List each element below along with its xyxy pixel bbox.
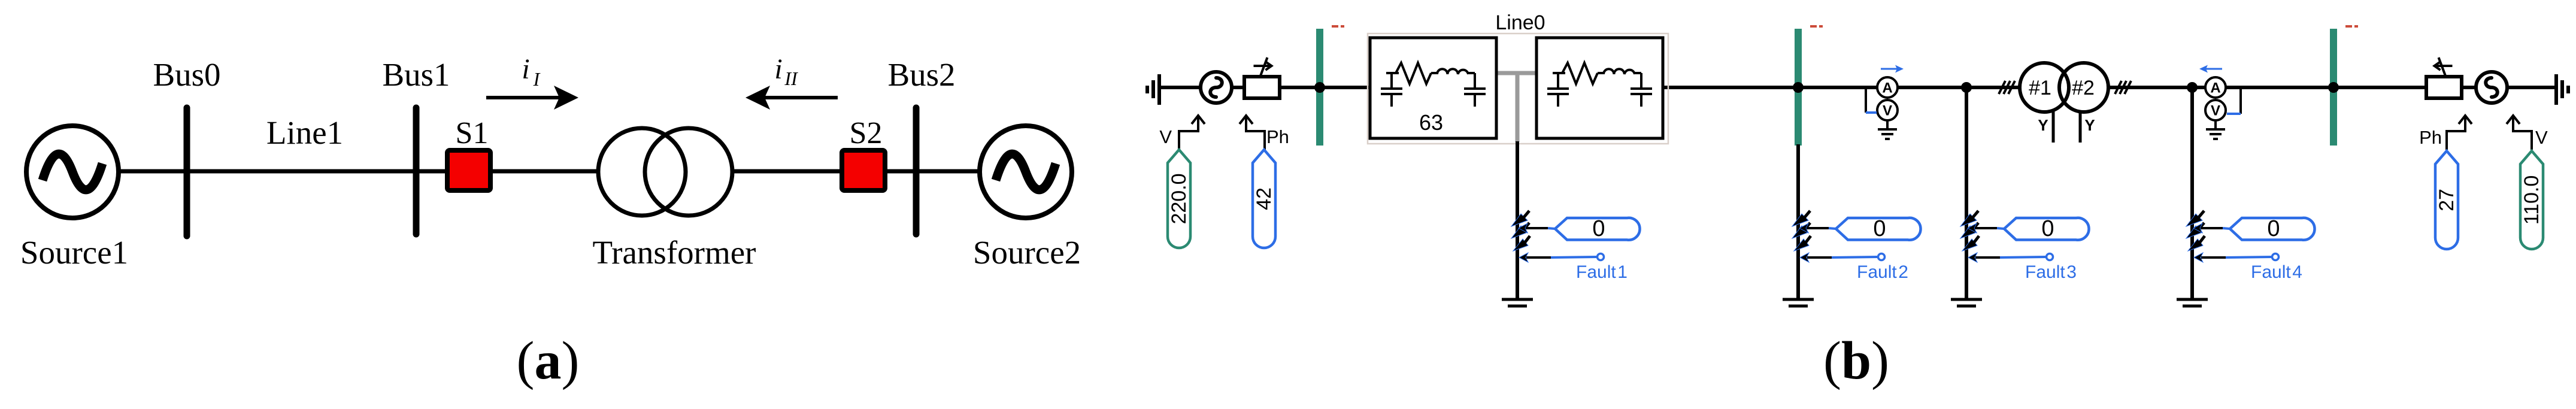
svg-text:0: 0: [1592, 216, 1605, 241]
svg-text:63: 63: [1419, 110, 1443, 135]
svg-text:0: 0: [1873, 216, 1886, 241]
svg-text:Bus2: Bus2: [887, 56, 955, 93]
svg-text:Fault 4: Fault 4: [2251, 262, 2302, 282]
svg-text:Ph: Ph: [1266, 126, 1289, 147]
svg-text:Fault 2: Fault 2: [1857, 262, 1908, 282]
svg-text:27: 27: [2435, 189, 2458, 211]
svg-text:220.0: 220.0: [1168, 173, 1190, 224]
svg-text:Ph: Ph: [2419, 127, 2442, 148]
svg-text:i: i: [774, 53, 782, 85]
svg-text:Line1: Line1: [266, 114, 343, 151]
svg-text:A: A: [1882, 80, 1892, 96]
svg-text:(a): (a): [517, 331, 580, 390]
svg-text:V: V: [1883, 103, 1892, 119]
svg-text:Fault 1: Fault 1: [1576, 262, 1628, 282]
svg-text:Y: Y: [2038, 116, 2048, 134]
svg-text:V: V: [2211, 103, 2220, 119]
svg-text:#1: #1: [2029, 77, 2051, 99]
svg-text:#2: #2: [2072, 77, 2095, 99]
svg-text:Transformer: Transformer: [593, 234, 756, 271]
svg-text:0: 0: [2041, 216, 2054, 241]
svg-text:i: i: [522, 53, 529, 85]
svg-text:Line0: Line0: [1495, 11, 1545, 34]
svg-text:Bus1: Bus1: [382, 56, 450, 93]
svg-text:0: 0: [2267, 216, 2280, 241]
svg-text:II: II: [784, 68, 798, 89]
svg-text:Source2: Source2: [973, 234, 1081, 271]
svg-text:Fault 3: Fault 3: [2025, 262, 2077, 282]
svg-text:Source1: Source1: [20, 234, 128, 271]
svg-text:S1: S1: [456, 116, 489, 150]
svg-text:V: V: [2535, 127, 2548, 148]
svg-text:A: A: [2210, 80, 2220, 96]
svg-text:I: I: [533, 68, 541, 90]
svg-text:110.0: 110.0: [2520, 175, 2543, 225]
svg-text:(b): (b): [1823, 331, 1889, 390]
svg-text:S2: S2: [850, 116, 883, 150]
svg-text:Y: Y: [2084, 116, 2095, 134]
svg-text:42: 42: [1253, 187, 1275, 210]
svg-text:Bus0: Bus0: [153, 56, 220, 93]
svg-text:V: V: [1159, 126, 1172, 147]
